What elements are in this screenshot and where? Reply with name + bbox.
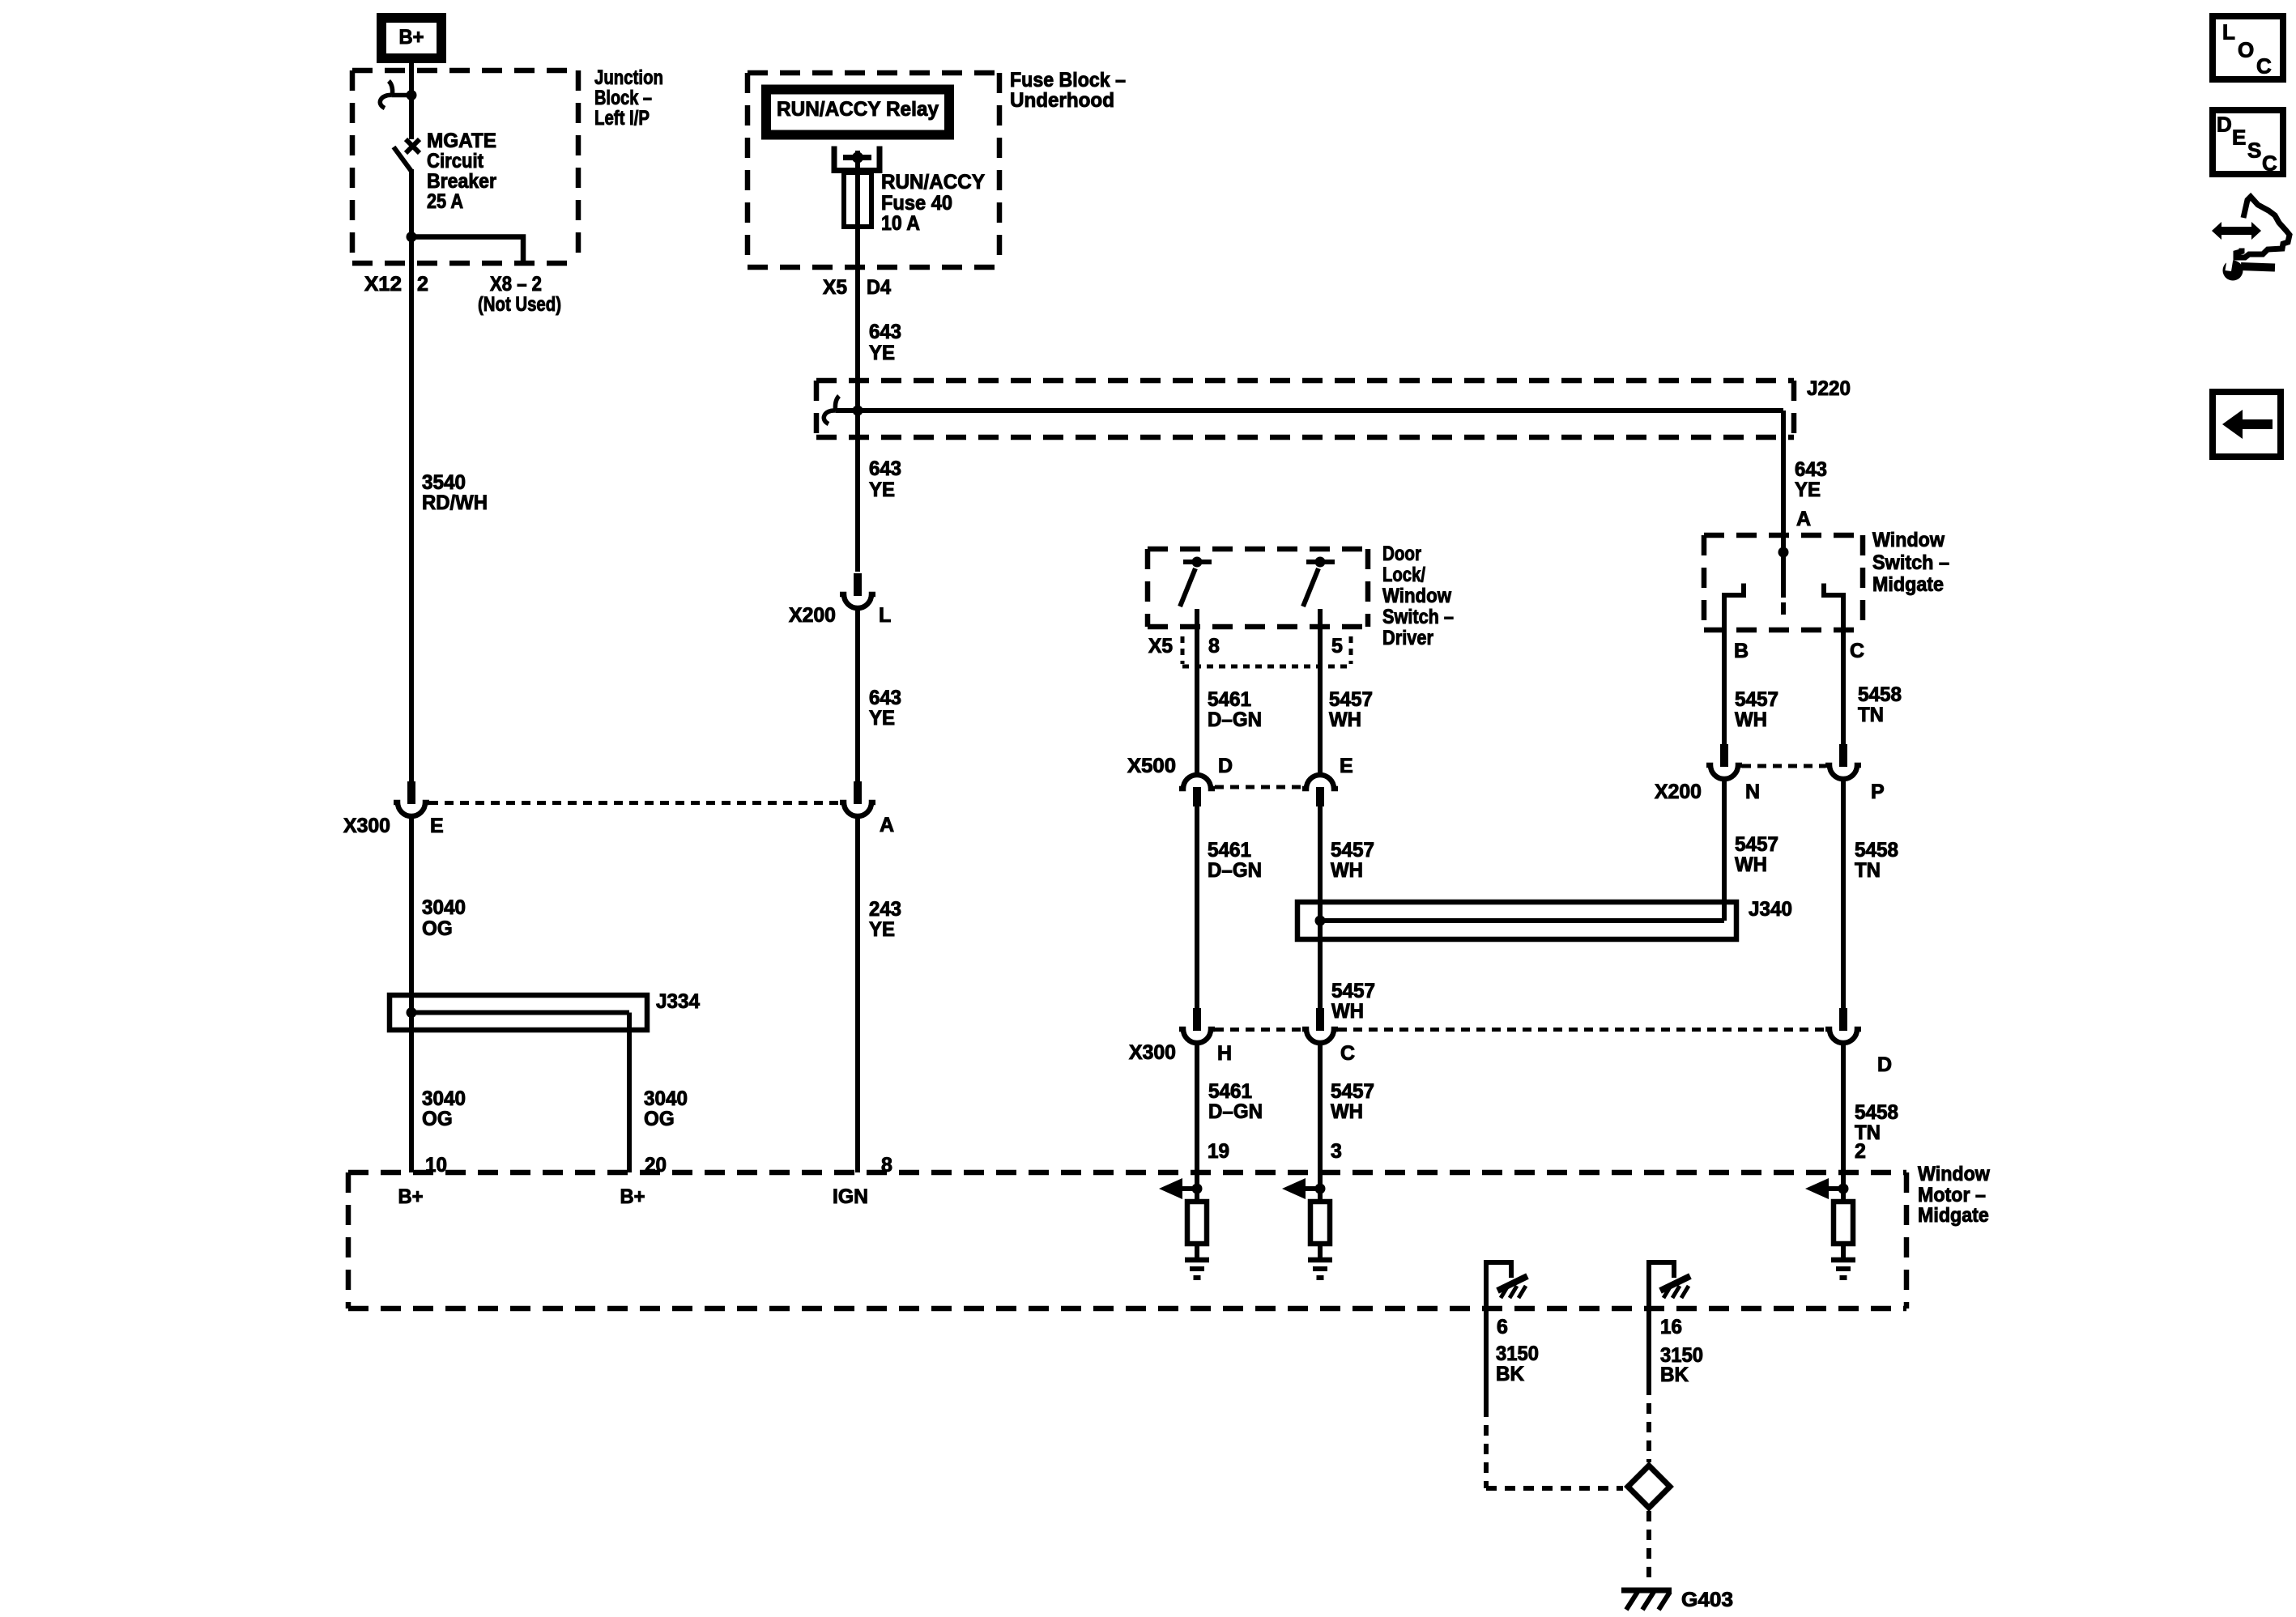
- svg-text:OG: OG: [644, 1108, 675, 1130]
- svg-text:WH: WH: [1735, 709, 1767, 731]
- svg-text:C: C: [2256, 54, 2272, 79]
- svg-text:N: N: [1745, 781, 1760, 803]
- svg-text:3040: 3040: [644, 1087, 688, 1110]
- svg-text:3150: 3150: [1496, 1343, 1539, 1365]
- svg-text:X300: X300: [1129, 1041, 1176, 1064]
- svg-text:OG: OG: [422, 1108, 453, 1130]
- svg-text:3: 3: [1331, 1140, 1342, 1163]
- svg-text:Window: Window: [1918, 1163, 1990, 1185]
- svg-text:5457: 5457: [1735, 833, 1778, 856]
- svg-text:X12: X12: [364, 273, 402, 296]
- svg-text:Left I/P: Left I/P: [594, 107, 650, 130]
- svg-text:B: B: [1734, 640, 1749, 662]
- svg-text:5458: 5458: [1855, 1101, 1898, 1124]
- svg-text:TN: TN: [1855, 859, 1881, 882]
- svg-text:5461: 5461: [1208, 1080, 1252, 1103]
- svg-text:C: C: [2262, 151, 2277, 176]
- svg-text:WH: WH: [1331, 1000, 1364, 1023]
- svg-text:YE: YE: [869, 918, 895, 941]
- svg-text:8: 8: [1208, 635, 1220, 657]
- svg-text:A: A: [1796, 508, 1811, 530]
- svg-text:WH: WH: [1735, 853, 1767, 876]
- svg-text:10 A: 10 A: [881, 212, 920, 235]
- svg-text:Underhood: Underhood: [1010, 89, 1114, 112]
- svg-text:D: D: [1877, 1053, 1892, 1076]
- svg-text:16: 16: [1660, 1316, 1682, 1338]
- svg-text:643: 643: [869, 687, 901, 709]
- svg-text:BK: BK: [1660, 1364, 1689, 1386]
- svg-text:5457: 5457: [1735, 688, 1778, 711]
- svg-text:Junction: Junction: [594, 66, 663, 89]
- svg-text:D: D: [2217, 113, 2232, 137]
- svg-text:Window: Window: [1382, 585, 1451, 607]
- svg-text:D: D: [1218, 755, 1233, 777]
- svg-text:Fuse 40: Fuse 40: [881, 192, 952, 215]
- svg-text:YE: YE: [869, 479, 895, 501]
- svg-text:Motor –: Motor –: [1918, 1184, 1986, 1206]
- svg-text:5457: 5457: [1331, 839, 1374, 862]
- svg-text:D–GN: D–GN: [1208, 859, 1262, 882]
- svg-text:L: L: [879, 604, 891, 627]
- svg-text:Lock/: Lock/: [1382, 564, 1425, 586]
- svg-text:MGATE: MGATE: [427, 130, 496, 152]
- svg-text:643: 643: [1795, 458, 1827, 481]
- svg-text:WH: WH: [1331, 859, 1363, 882]
- svg-text:IGN: IGN: [833, 1185, 868, 1208]
- svg-text:J334: J334: [656, 990, 700, 1013]
- svg-text:B+: B+: [620, 1185, 645, 1208]
- svg-text:5461: 5461: [1208, 839, 1251, 862]
- svg-text:3040: 3040: [422, 1087, 466, 1110]
- svg-text:Switch –: Switch –: [1872, 551, 1949, 574]
- svg-text:E: E: [1340, 755, 1353, 777]
- svg-text:5457: 5457: [1331, 1080, 1374, 1103]
- svg-text:20: 20: [645, 1154, 667, 1177]
- svg-text:643: 643: [869, 321, 901, 343]
- svg-text:L: L: [2222, 20, 2235, 45]
- svg-text:X200: X200: [1655, 781, 1702, 803]
- svg-text:TN: TN: [1858, 704, 1884, 726]
- svg-text:8: 8: [881, 1154, 892, 1177]
- svg-text:O: O: [2238, 38, 2254, 62]
- svg-text:5458: 5458: [1858, 683, 1902, 706]
- svg-text:5457: 5457: [1331, 980, 1375, 1002]
- svg-text:RUN/ACCY: RUN/ACCY: [881, 171, 985, 194]
- svg-text:25 A: 25 A: [427, 190, 463, 213]
- svg-text:243: 243: [869, 898, 901, 921]
- svg-text:J220: J220: [1807, 377, 1851, 400]
- svg-text:3540: 3540: [422, 471, 466, 494]
- svg-text:X5: X5: [1148, 635, 1173, 657]
- svg-text:X300: X300: [343, 815, 390, 837]
- svg-text:E: E: [430, 815, 444, 837]
- svg-text:Fuse Block –: Fuse Block –: [1010, 69, 1126, 91]
- svg-text:Midgate: Midgate: [1872, 573, 1944, 596]
- svg-text:RUN/ACCY Relay: RUN/ACCY Relay: [777, 98, 939, 121]
- svg-text:WH: WH: [1329, 709, 1361, 731]
- svg-text:Switch –: Switch –: [1382, 606, 1454, 628]
- svg-text:Breaker: Breaker: [427, 170, 496, 193]
- svg-text:2: 2: [417, 273, 428, 296]
- svg-text:C: C: [1850, 640, 1864, 662]
- svg-text:(Not Used): (Not Used): [478, 293, 561, 316]
- svg-text:Block –: Block –: [594, 87, 652, 109]
- svg-text:X5: X5: [823, 276, 847, 299]
- svg-text:D–GN: D–GN: [1208, 709, 1262, 731]
- svg-text:D–GN: D–GN: [1208, 1100, 1263, 1123]
- svg-text:WH: WH: [1331, 1100, 1363, 1123]
- svg-text:YE: YE: [869, 342, 895, 364]
- svg-text:D4: D4: [867, 276, 891, 299]
- svg-text:10: 10: [425, 1154, 447, 1177]
- svg-text:A: A: [880, 814, 894, 836]
- svg-text:3040: 3040: [422, 896, 466, 919]
- svg-text:YE: YE: [869, 707, 895, 730]
- svg-text:5457: 5457: [1329, 688, 1373, 711]
- svg-text:G403: G403: [1681, 1589, 1733, 1611]
- svg-text:Door: Door: [1382, 543, 1421, 565]
- svg-text:X500: X500: [1127, 755, 1176, 777]
- svg-text:RD/WH: RD/WH: [422, 491, 488, 514]
- svg-text:643: 643: [869, 457, 901, 480]
- svg-text:S: S: [2247, 138, 2261, 163]
- svg-text:H: H: [1217, 1042, 1232, 1065]
- svg-text:X8 – 2: X8 – 2: [490, 273, 542, 296]
- svg-text:5461: 5461: [1208, 688, 1251, 711]
- svg-text:P: P: [1871, 781, 1885, 803]
- svg-text:TN: TN: [1855, 1121, 1881, 1144]
- svg-text:X200: X200: [789, 604, 836, 627]
- svg-text:Driver: Driver: [1382, 627, 1433, 649]
- svg-text:B+: B+: [398, 1185, 424, 1208]
- svg-text:5458: 5458: [1855, 839, 1898, 862]
- svg-text:B+: B+: [399, 26, 424, 49]
- svg-text:J340: J340: [1749, 898, 1792, 921]
- svg-text:19: 19: [1208, 1140, 1229, 1163]
- svg-text:Circuit: Circuit: [427, 150, 484, 172]
- svg-text:Window: Window: [1872, 529, 1945, 551]
- svg-text:Midgate: Midgate: [1918, 1204, 1989, 1227]
- svg-text:5: 5: [1331, 635, 1343, 657]
- svg-text:YE: YE: [1795, 479, 1821, 501]
- svg-text:OG: OG: [422, 917, 453, 940]
- svg-text:6: 6: [1497, 1316, 1508, 1338]
- svg-text:BK: BK: [1496, 1363, 1524, 1385]
- svg-text:E: E: [2232, 126, 2246, 150]
- svg-text:C: C: [1340, 1042, 1355, 1065]
